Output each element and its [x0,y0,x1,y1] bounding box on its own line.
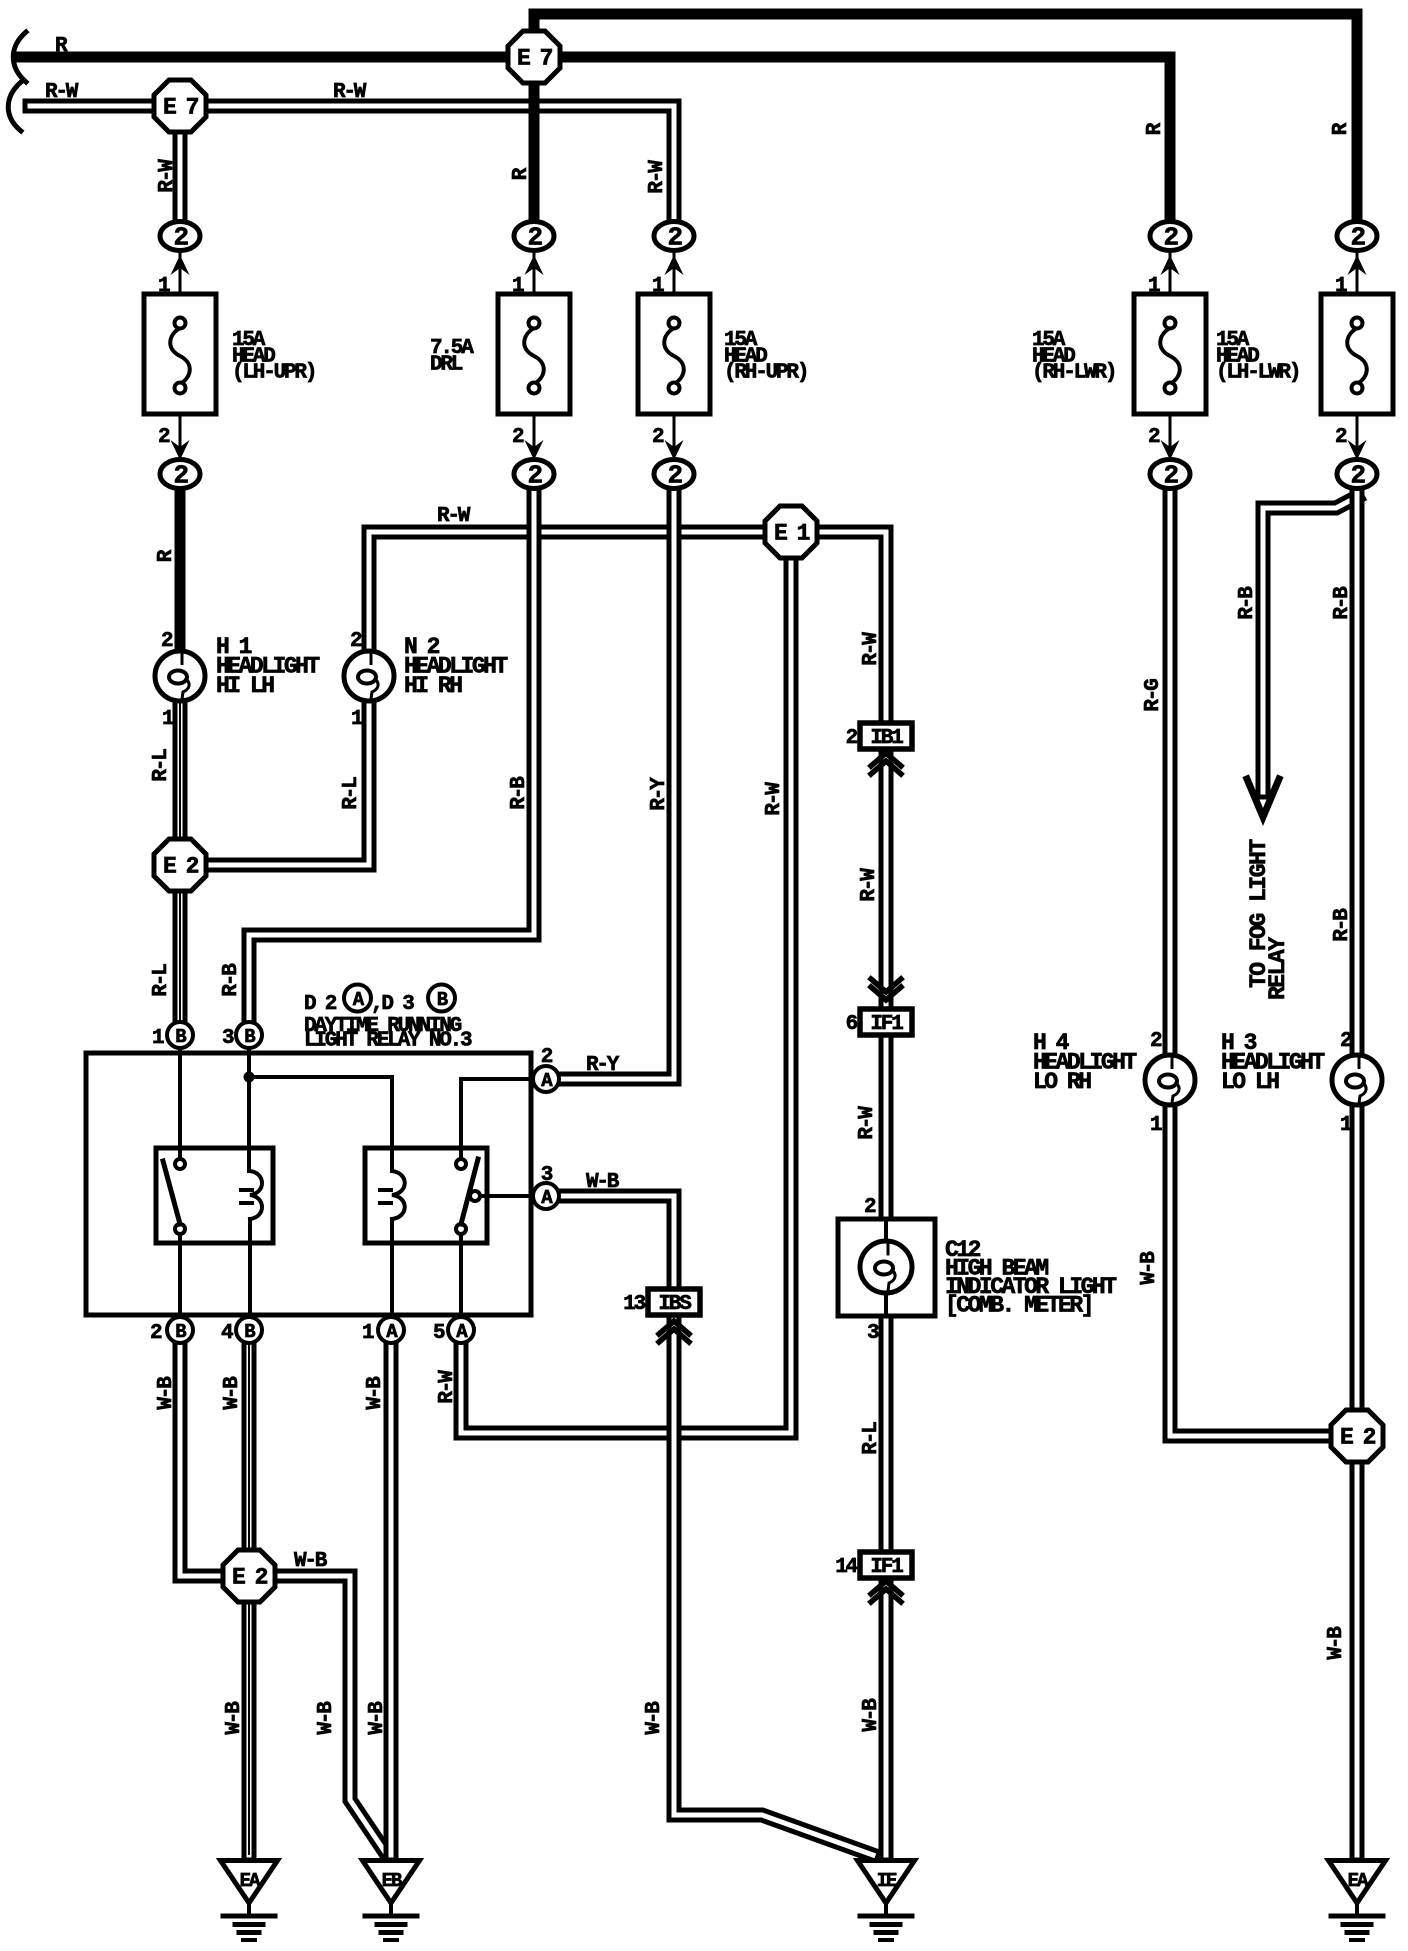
svg-text:R-Y: R-Y [648,777,671,811]
svg-text:W-B: W-B [860,1698,883,1732]
svg-text:R-W: R-W [156,159,179,193]
wire W-B H3 pin1 to E2 [1350,1104,1365,1413]
wire R-L H1 pin1 down to E2 [173,700,188,843]
lamp H4 headlight LO RH [1145,1055,1195,1105]
pin B terminal relay pin 2B [167,1317,193,1343]
wire C12 pin3 internal [884,1293,888,1314]
svg-text:R-W: R-W [860,632,883,666]
wire R-L E2 down to relay pin 1B [173,888,188,1023]
svg-text:14: 14 [835,1556,857,1579]
svg-text:W-B: W-B [366,1701,389,1735]
svg-text:EA: EA [1348,1870,1369,1892]
lamp H1 headlight HI LH [155,651,205,701]
svg-text:R-W: R-W [333,81,367,104]
node E7 junction connector [508,31,560,83]
node E7 junction connector [154,80,206,132]
pin B terminal relay pin 4B [236,1317,262,1343]
node connector 2 above fuse x674 [654,222,694,253]
wire R-G HEAD RH-LWR fuse to H4 headlight [1163,489,1178,1056]
wire R-B HEAD LH-LWR fuse to H3 headlight [1350,489,1365,1056]
wire W-B IBS connector down to IE ground [674,1318,873,1855]
svg-text:2: 2 [150,1322,162,1345]
svg-text:W-B: W-B [586,1171,620,1194]
pin A terminal relay pin 3A [533,1183,559,1209]
ground IE (ground IE) [858,1861,915,1941]
wire R-W H2 pin2 to E1 junction to IB1 connector [369,532,886,723]
svg-text:EB: EB [382,1870,402,1892]
svg-text:2: 2 [1335,426,1347,449]
svg-text:W-B: W-B [364,1376,387,1410]
svg-text:3: 3 [222,1027,234,1050]
svg-text:3: 3 [867,1322,879,1345]
svg-text:E 2: E 2 [1340,1425,1376,1451]
wire arrow 15A HEAD (LH-LWR) out-arrow [1348,440,1367,460]
fuse 15A HEAD (RH-LWR) [1134,252,1206,458]
svg-text:,D 3: ,D 3 [371,993,414,1016]
connector 13 IBS (IBS pin13) [623,1289,700,1316]
node E2 junction connector [154,839,206,891]
wire W-B relay pin 3A to connector IBS [558,1196,674,1290]
wire centerline 4B to E2 to EA [248,1345,250,1854]
svg-text:W-B: W-B [1325,1626,1348,1660]
svg-text:IB1: IB1 [870,727,903,750]
svg-text:R-Y: R-Y [586,1054,620,1077]
wire relay coil jumper [249,1075,392,1079]
svg-text:R-L: R-L [150,749,173,782]
wire relay switch to pin 2B [178,1234,182,1318]
relay coil B (left) [241,1171,262,1219]
svg-text:E 7: E 7 [163,95,199,121]
svg-text:1: 1 [158,275,170,298]
svg-text:1: 1 [1340,1114,1352,1137]
pin B terminal relay pin 3B [236,1022,262,1048]
fuse 15A HEAD (LH-UPR) [144,252,216,458]
svg-text:2: 2 [846,727,858,750]
svg-text:B: B [175,1321,186,1343]
svg-text:E 7: E 7 [517,46,553,72]
wire arrowhead to fog light relay [1247,779,1279,817]
svg-text:R-B: R-B [1331,586,1354,620]
svg-text:2: 2 [161,630,173,653]
wire W-B E2 to EA ground right [1350,1459,1365,1855]
wire R-L C12 to IF1 connector pin 14 [879,1317,894,1552]
wire W-B relay pin 2B to E2 [180,1344,227,1576]
svg-text:1: 1 [1335,275,1347,298]
svg-text:R-B: R-B [508,776,531,810]
node junction dot pin3B [244,1072,255,1083]
svg-text:E 2: E 2 [232,1565,268,1591]
svg-text:W-B: W-B [155,1376,178,1410]
svg-text:W-B: W-B [221,1376,244,1410]
wire arrow 15A HEAD (RH-UPR) in-arrow [665,255,684,275]
node connector 2 below fuse x674 [654,460,694,491]
svg-text:IE: IE [877,1870,897,1892]
svg-text:EA: EA [240,1870,261,1892]
pin A terminal relay pin 2A [533,1066,559,1092]
svg-text:5: 5 [433,1322,445,1345]
relay unit D2 (A) inner box [156,1148,273,1243]
svg-text:W-B: W-B [643,1701,666,1735]
svg-text:4: 4 [221,1322,233,1345]
pin A terminal relay pin 5A [448,1317,474,1343]
svg-text:R-W: R-W [856,1106,879,1140]
connector 14 IF1 (IF1 pin14) [835,1552,912,1579]
wire R-L H2 pin1 to E2 [204,700,369,865]
svg-text:R-L: R-L [860,1422,883,1455]
svg-text:2: 2 [527,223,542,253]
wire W-B relay pin 1A to EB ground [384,1344,399,1855]
wire arrow 15A HEAD (RH-UPR) out-arrow [665,440,684,460]
wire R-B DRL fuse to relay pin 3B [249,489,534,1023]
wire R-W IB1 to IF1 connector [879,751,894,1010]
svg-text:2: 2 [1350,461,1365,491]
svg-text:R-B: R-B [1236,586,1259,620]
node connector 2 above fuse x180 [160,222,200,253]
svg-text:R-G: R-G [1142,679,1165,712]
svg-text:DAYTIME RUNNINGLIGHT RELAY NO.: DAYTIME RUNNINGLIGHT RELAY NO.3 [304,1015,472,1053]
svg-text:1: 1 [362,1322,374,1345]
fuse 7.5A DRL [498,252,570,458]
svg-text:2: 2 [667,223,682,253]
wire centerline H1 to E2 [179,702,181,1021]
svg-text:3: 3 [541,1164,553,1187]
wire relay pin3B to coil B [247,1048,251,1171]
svg-text:IBS: IBS [658,1293,691,1316]
svg-text:1: 1 [1150,1114,1162,1137]
wire coil B to pin 4B [248,1219,252,1318]
svg-text:2: 2 [527,461,542,491]
svg-text:2: 2 [864,1196,876,1219]
svg-text:2: 2 [1163,223,1178,253]
lamp H3 headlight LO LH [1332,1055,1382,1105]
svg-text:2: 2 [1163,461,1178,491]
ground EA (ground EA left) [221,1861,278,1941]
wire arrow 15A HEAD (LH-UPR) out-arrow [171,440,190,460]
wire arrow 15A HEAD (RH-LWR) out-arrow [1161,440,1180,460]
svg-text:IF1: IF1 [870,1013,903,1036]
wire arrow 15A HEAD (LH-UPR) in-arrow [171,255,190,275]
wire R-W IF1 to C12 high beam indicator [879,1036,894,1218]
node connector 2 below fuse x534 [514,460,554,491]
lamp H2 headlight HI RH [344,651,394,701]
svg-text:2: 2 [173,223,188,253]
svg-text:R-W: R-W [437,505,471,528]
wire coil A to pin 1A [390,1219,394,1318]
node connector 2 below fuse x180 [160,460,200,491]
svg-text:D 2: D 2 [304,993,337,1016]
svg-text:13: 13 [623,1293,645,1316]
svg-text:6: 6 [846,1013,858,1036]
wire arrow 15A HEAD (RH-LWR) in-arrow [1161,255,1180,275]
pin B terminal relay pin 1B [167,1022,193,1048]
wire jumper down to coil A [390,1077,394,1171]
svg-text:2: 2 [1148,426,1160,449]
svg-text:W-B: W-B [315,1701,338,1735]
lamp C12 high beam indicator lamp [860,1241,912,1293]
fuse 15A HEAD (LH-LWR) [1321,252,1393,458]
wire R top feed from E7 to LH-LWR fuse [534,14,1357,224]
wire switch A to pin 5A [459,1234,463,1318]
wire switch A wiper to pin 3A [480,1194,533,1198]
brace left of R bus [13,32,26,82]
svg-text:1: 1 [1148,275,1160,298]
svg-text:R-B: R-B [1331,908,1354,942]
node E2 junction connector [1331,1410,1383,1462]
wire arrow 7.5A DRL out-arrow [525,440,544,460]
svg-text:B: B [437,989,448,1011]
svg-text:2: 2 [1340,1030,1352,1053]
node E1 junction connector [765,506,817,558]
ground EB (ground EB) [363,1861,420,1941]
wire W-B IF1 pin14 to IE ground [879,1578,894,1855]
svg-text:1: 1 [652,275,664,298]
wire W-B relay pin 4B to E2 [242,1344,257,1553]
svg-text:R-B: R-B [220,963,243,997]
wire W-B E2 to EB ground [273,1576,387,1855]
wire R-B branch to fog light relay [1263,497,1357,792]
connector 2 IB1 (IB1 pin2) [846,723,912,750]
svg-text:2: 2 [667,461,682,491]
ground EA (ground EA right) [1329,1861,1386,1941]
wire relay pin1B to switch contact [178,1048,182,1159]
svg-text:E 2: E 2 [163,854,199,880]
svg-text:R-W: R-W [646,160,669,194]
wire R-Y HEAD RH-UPR fuse to relay pin 2A [558,489,674,1079]
node connector 2 below fuse x1357 [1337,460,1377,491]
wire arrow 7.5A DRL in-arrow [525,255,544,275]
relay switch B (left) [163,1159,185,1234]
svg-text:W-B: W-B [1138,1251,1161,1285]
fuse 15A HEAD (RH-UPR) [638,252,710,458]
svg-text:1: 1 [512,275,524,298]
svg-text:R-L: R-L [340,777,363,810]
svg-text:R-W: R-W [858,868,881,902]
svg-text:R-W: R-W [763,782,786,816]
svg-text:2: 2 [512,426,524,449]
svg-text:B: B [175,1026,186,1048]
svg-text:W-B: W-B [223,1701,246,1735]
svg-text:E 1: E 1 [774,521,810,547]
wire R bus to RH-LWR fuse [18,57,1170,224]
node connector 2 above fuse x534 [514,222,554,253]
svg-text:IF1: IF1 [870,1556,903,1579]
C12 HIGH BEAM INDICATOR LIGHT box [838,1219,935,1316]
relay unit D3 (B) inner box [365,1148,487,1243]
wire chevron into IF1 pin14 [871,1581,901,1602]
connector 6 IF1 (IF1 pin6) [846,1009,912,1036]
brace left of R-W bus [8,82,21,131]
wire chevron into IF1 pin6 [871,979,901,1000]
svg-text:R-W: R-W [436,1370,459,1404]
wire chevron into IB1 [871,753,901,774]
wire chevron into IBS [659,1321,689,1342]
node connector 2 above fuse x1357 [1337,222,1377,253]
wire W-B H4 pin1 to E2 [1170,1104,1333,1436]
relay coil A (right) [380,1171,405,1219]
svg-text:R-L: R-L [150,964,173,997]
svg-text:1: 1 [152,1027,164,1050]
wire R-W bus to RH-UPR fuse [30,106,674,223]
wire R from fuse to H1 headlight [175,489,186,656]
svg-text:2: 2 [158,426,170,449]
wire arrow 15A HEAD (LH-LWR) in-arrow [1348,255,1367,275]
wire C12 pin2 internal [884,1221,888,1243]
wire relay pin2A to switch A contact [461,1079,533,1159]
wire W-B E2 to EA ground [242,1599,257,1855]
svg-text:RELAY: RELAY [1265,937,1291,1000]
svg-text:R-W: R-W [45,81,79,104]
pin A terminal relay pin 1A [378,1317,404,1343]
node connector 2 above fuse x1170 [1150,222,1190,253]
svg-text:B: B [244,1321,255,1343]
svg-text:2: 2 [652,426,664,449]
svg-text:B: B [244,1026,255,1048]
svg-text:2: 2 [541,1046,553,1069]
svg-text:1: 1 [351,708,363,731]
svg-text:2: 2 [173,461,188,491]
svg-text:2: 2 [1150,1030,1162,1053]
svg-text:1: 1 [162,708,174,731]
node E2 junction connector [223,1550,275,1602]
relay box DAYTIME RUNNING LIGHT RELAY NO.3 [86,1053,531,1315]
svg-text:2: 2 [1350,223,1365,253]
relay switch A (right) [456,1159,480,1234]
svg-text:2: 2 [350,630,362,653]
svg-text:W-B: W-B [294,1550,328,1573]
wire R-W E1 down and across to relay pin 5A [461,556,791,1433]
node connector 2 below fuse x1170 [1150,460,1190,491]
wire R-W feed E7 to HEAD LH-UPR fuse [173,128,188,223]
